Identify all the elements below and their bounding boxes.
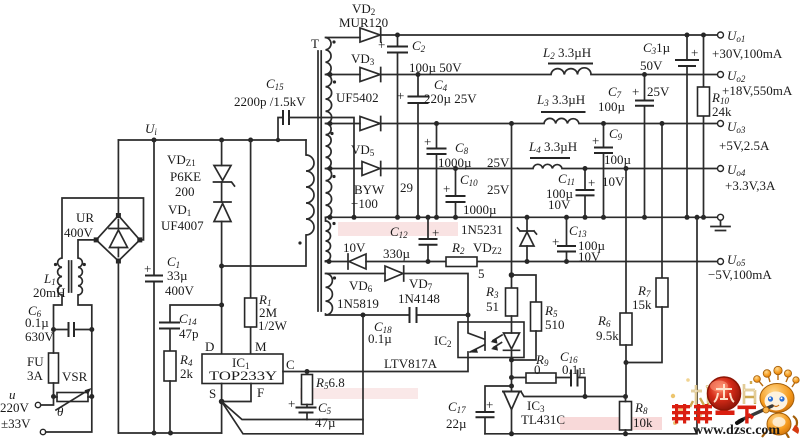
resistor R4 2k <box>164 351 176 381</box>
svg-text:100µ: 100µ <box>598 99 626 114</box>
red glossy circle logo <box>708 377 741 410</box>
fuse FU 3A <box>49 353 59 383</box>
capacitor C17 22u <box>485 386 512 434</box>
bias winding top wire <box>326 273 386 275</box>
svg-text:1N5231: 1N5231 <box>461 222 503 237</box>
resistor R7 15k <box>661 124 663 279</box>
svg-text:UF5402: UF5402 <box>336 90 379 105</box>
svg-text:10V: 10V <box>602 174 625 189</box>
diode VD5 BYW-100 <box>362 162 380 176</box>
svg-text:+: + <box>552 234 559 249</box>
L1 right coil <box>78 258 82 295</box>
svg-text:C31µ: C31µ <box>643 40 671 56</box>
svg-text:25V: 25V <box>647 84 670 99</box>
svg-text:BYW: BYW <box>354 182 385 197</box>
svg-text:VD5: VD5 <box>351 142 375 158</box>
svg-text:IC2: IC2 <box>434 333 452 349</box>
svg-text:10V: 10V <box>548 197 571 212</box>
svg-text:C15: C15 <box>266 76 284 92</box>
red brand blocks (weikuyixia) <box>672 404 756 424</box>
svg-text:VD7: VD7 <box>409 276 433 292</box>
bias winding w6 <box>326 274 333 315</box>
TVS VDZ1 P6KE200 <box>221 140 223 166</box>
node S <box>219 399 225 405</box>
primary polarity dot <box>298 241 301 244</box>
capacitor C6 0.1u 630V <box>69 323 75 336</box>
svg-text:C14: C14 <box>179 311 197 327</box>
+3.3V rail left part <box>381 168 533 170</box>
S fan wire to C5 rail <box>222 402 363 420</box>
input terminal 2 (neutral) <box>40 429 45 434</box>
svg-text:24k: 24k <box>712 104 732 119</box>
opto phototransistor <box>468 322 485 358</box>
svg-text:TL431C: TL431C <box>521 412 565 427</box>
sparkles <box>671 394 675 398</box>
wire bridge bottom to primary ground bus <box>117 261 119 433</box>
capacitor C8 1000u 25V <box>436 124 438 218</box>
svg-text:R3: R3 <box>485 284 499 300</box>
svg-text:θ: θ <box>57 404 64 419</box>
resistor R1 2M 1/2W <box>250 140 252 354</box>
svg-text:+: + <box>632 84 639 99</box>
watermark pink band 1 <box>338 222 458 236</box>
transformer primary winding <box>305 140 307 155</box>
svg-text:M: M <box>255 339 267 354</box>
svg-text:+: + <box>397 88 404 103</box>
svg-text:C2: C2 <box>412 38 426 54</box>
optocoupler IC2 LTV817A box <box>458 322 524 358</box>
common-mode choke L1 20mH : left coil <box>58 258 62 295</box>
svg-text:C10: C10 <box>460 172 478 188</box>
capacitor C10 1000u 25V <box>455 169 457 218</box>
F pin wire <box>222 384 251 402</box>
svg-text:1000µ: 1000µ <box>463 202 497 217</box>
svg-text:www.dzsc.com: www.dzsc.com <box>693 423 780 438</box>
svg-text:VD3: VD3 <box>351 51 375 67</box>
svg-text:+: + <box>432 225 439 240</box>
svg-text:L2 3.3µH: L2 3.3µH <box>542 45 591 61</box>
winding polarity dots <box>332 40 335 43</box>
LED cathode node <box>511 358 513 392</box>
zener VDZ2 1N5231 <box>526 217 528 231</box>
svg-text:Uo2: Uo2 <box>727 68 746 84</box>
wire bridge top to Ui rail <box>117 140 119 216</box>
svg-text:VD1: VD1 <box>168 202 191 218</box>
svg-text:630V: 630V <box>25 329 55 344</box>
snubber wire to C14 <box>170 305 222 323</box>
wire L1 right coil top to bridge left vertex <box>78 240 96 258</box>
resistor R10 24k <box>703 35 705 217</box>
svg-text:VDZ2: VDZ2 <box>473 240 502 256</box>
svg-text:R8: R8 <box>634 400 648 416</box>
shunt reg IC3 TL431C <box>503 391 521 393</box>
svg-text:P6KE: P6KE <box>170 169 201 184</box>
diode VD6 1N5819 <box>347 254 349 269</box>
svg-text:R2: R2 <box>451 240 465 256</box>
svg-text:47µ: 47µ <box>315 415 336 430</box>
-5V rail wire <box>326 261 718 263</box>
mascot robot <box>737 366 799 438</box>
svg-text:2k: 2k <box>180 366 194 381</box>
svg-text:0.1µ: 0.1µ <box>368 331 392 346</box>
capacitor C15 2200p/1.5kV <box>278 118 283 141</box>
svg-text:0.1µ: 0.1µ <box>562 362 586 377</box>
svg-text:UF4007: UF4007 <box>161 218 204 233</box>
svg-text:VSR: VSR <box>62 369 88 384</box>
svg-text:9.5k: 9.5k <box>596 328 619 343</box>
opto LED <box>511 322 513 333</box>
feedback sense riser from +5V <box>511 124 513 289</box>
svg-text:C: C <box>286 357 295 372</box>
C pin wire to optocoupler emitter <box>283 358 468 372</box>
opto light arrows <box>493 335 502 348</box>
svg-text:220µ 25V: 220µ 25V <box>424 91 477 106</box>
svg-text:L3 3.3µH: L3 3.3µH <box>536 92 585 108</box>
svg-text:Uo1: Uo1 <box>727 28 745 44</box>
svg-text:+18V,550mA: +18V,550mA <box>722 83 793 98</box>
svg-text:25V: 25V <box>487 182 510 197</box>
svg-text:±33V: ±33V <box>1 416 31 431</box>
svg-text:UR: UR <box>76 210 94 225</box>
svg-text:33µ: 33µ <box>167 268 188 283</box>
svg-text:VD6: VD6 <box>349 278 373 294</box>
inductor L4 3.3uH <box>533 164 562 168</box>
secondary winding w4 <box>326 169 332 218</box>
svg-text:10V: 10V <box>343 240 366 255</box>
diode VD1 UF4007 <box>214 201 231 203</box>
bias winding bottom wire with C18 <box>326 314 469 315</box>
node Ui rail <box>118 139 306 141</box>
svg-text:1/2W: 1/2W <box>258 318 288 333</box>
svg-text:47p: 47p <box>179 326 199 341</box>
resistor R5 6.8 <box>302 375 313 405</box>
svg-text:Uo5: Uo5 <box>727 252 746 268</box>
capacitor C2 100u 50V <box>397 35 399 217</box>
svg-text:400V: 400V <box>64 225 94 240</box>
inductor L3 3.3uH <box>544 118 579 123</box>
L1 polarity dots <box>54 263 57 266</box>
bridge rectifier UR 400V <box>96 216 140 262</box>
terminal Uo3 <box>718 121 724 127</box>
L1 core bars <box>69 261 72 292</box>
svg-text:25V: 25V <box>487 155 510 170</box>
svg-text:+: + <box>691 45 698 60</box>
svg-text:510: 510 <box>545 317 565 332</box>
svg-text:0.1µ: 0.1µ <box>25 315 49 330</box>
svg-text:330µ: 330µ <box>383 246 411 261</box>
svg-text:200: 200 <box>175 184 195 199</box>
svg-text:C9: C9 <box>609 126 623 142</box>
row1 tap wire <box>326 37 361 39</box>
gold character block zhao <box>690 385 712 407</box>
capacitor C13 100u 10V <box>566 217 568 261</box>
primary ground bus <box>118 432 221 434</box>
svg-text:C11: C11 <box>558 171 575 187</box>
svg-text:15k: 15k <box>632 297 652 312</box>
resistor R8 10k <box>620 402 632 431</box>
svg-text:220V: 220V <box>0 400 30 415</box>
svg-text:+3.3V,3A: +3.3V,3A <box>725 178 776 193</box>
+30V rail <box>381 34 718 36</box>
diode VD2 MUR120 <box>360 28 380 42</box>
capacitor C16 0.1u <box>571 371 578 386</box>
varistor arrow <box>56 390 89 410</box>
svg-text:400V: 400V <box>165 283 195 298</box>
terminal Uo2 <box>718 72 724 78</box>
svg-text:50V: 50V <box>640 58 663 73</box>
row3 tap wire <box>326 123 361 125</box>
svg-text:20mH: 20mH <box>33 285 66 300</box>
diode VD3 <box>360 68 380 82</box>
S pin wire <box>221 384 223 434</box>
svg-text:51: 51 <box>486 299 499 314</box>
capacitor C18 0.1u <box>410 308 417 322</box>
svg-text:+5V,2.5A: +5V,2.5A <box>719 138 770 153</box>
L1 bottom leads <box>54 295 92 330</box>
op IC1 TOP233Y box <box>202 354 283 384</box>
resistor R2 <box>446 257 477 267</box>
svg-text:−5V,100mA: −5V,100mA <box>708 267 772 282</box>
capacitor C12 330u 10V <box>427 217 429 261</box>
capacitor C11 100u 10V <box>584 169 586 218</box>
capacitor C7 100u 25V <box>644 75 646 218</box>
svg-text:+: + <box>288 396 295 411</box>
svg-text:100µ: 100µ <box>604 152 632 167</box>
bridge inner diode <box>109 220 128 257</box>
terminal ground <box>718 214 724 220</box>
svg-text:+: + <box>424 134 431 149</box>
svg-text:VDZ1: VDZ1 <box>167 152 196 168</box>
svg-text:FU: FU <box>27 354 44 369</box>
svg-text:D: D <box>205 339 214 354</box>
svg-text:+: + <box>443 181 450 196</box>
row4 tap wire <box>326 168 363 170</box>
secondary winding w3 <box>326 124 332 169</box>
svg-text:C8: C8 <box>455 140 469 156</box>
secondary ground bottom rail <box>485 217 697 433</box>
svg-text:C7: C7 <box>608 84 622 100</box>
capacitor C1 33u 400V <box>153 140 155 433</box>
svg-text:LTV817A: LTV817A <box>384 356 438 371</box>
wire from terminal 1 to fuse bottom node <box>41 397 54 406</box>
diode VD4 UF5402 <box>360 117 380 131</box>
svg-text:5: 5 <box>478 266 485 281</box>
varistor VSR <box>57 393 88 402</box>
svg-text:+: + <box>144 261 151 276</box>
capacitor C9 100u 10V <box>603 124 605 218</box>
svg-text:Uo4: Uo4 <box>727 162 746 178</box>
inductor L2 3.3uH <box>551 68 591 75</box>
svg-text:T: T <box>311 36 319 51</box>
svg-text:22µ: 22µ <box>446 416 467 431</box>
svg-text:10k: 10k <box>633 415 653 430</box>
capacitor C14 47p <box>160 323 179 329</box>
branch to R5 510 <box>512 275 537 302</box>
svg-text:MUR120: MUR120 <box>339 15 388 30</box>
svg-text:+: + <box>486 397 493 412</box>
input terminal 1 (live) <box>35 402 40 407</box>
resistor R5 510 <box>531 302 542 331</box>
svg-text:−100: −100 <box>351 196 378 211</box>
svg-text:C17: C17 <box>448 399 466 415</box>
capacitor C4 220u 25V <box>417 75 419 218</box>
svg-text:L4 3.3µH: L4 3.3µH <box>528 139 577 155</box>
resistor R9 0 <box>512 377 527 379</box>
row2 tap wire <box>326 74 361 76</box>
wire neutral to right riser <box>46 330 92 433</box>
resistor R3 51 <box>506 288 518 316</box>
svg-text:2200p /1.5kV: 2200p /1.5kV <box>234 94 306 109</box>
secondary ground bus <box>326 216 719 218</box>
svg-text:+: + <box>592 133 599 148</box>
terminal Uo4 <box>718 166 724 172</box>
gold character block pian <box>744 381 755 404</box>
svg-text:Ui: Ui <box>145 121 157 137</box>
capacitor C3 1u 50V <box>686 35 688 217</box>
+5V rail left part <box>381 123 544 125</box>
bias return riser <box>362 315 364 434</box>
svg-text:+: + <box>378 37 385 52</box>
svg-text:+: + <box>588 175 595 190</box>
watermark pink band 2 <box>300 388 418 399</box>
capacitor C5 47u <box>306 405 308 408</box>
secondary winding w1 <box>326 38 332 75</box>
svg-text:R56.8: R56.8 <box>315 375 345 391</box>
svg-text:Uo3: Uo3 <box>727 119 746 135</box>
svg-text:0: 0 <box>534 362 541 377</box>
bias winding w5 <box>326 221 331 261</box>
svg-text:TOP233Y: TOP233Y <box>209 368 278 383</box>
svg-text:+30V,100mA: +30V,100mA <box>712 46 783 61</box>
resistor R6 9.5k <box>625 169 627 314</box>
svg-text:F: F <box>257 385 264 400</box>
pen in hand <box>739 406 772 421</box>
transformer core <box>318 51 321 311</box>
svg-text:C5: C5 <box>318 400 332 416</box>
terminal Uo1 <box>718 32 724 38</box>
wire L1 left coil top over bridge to right vertex <box>62 198 144 258</box>
+18V rail left part <box>381 74 551 76</box>
svg-text:S: S <box>209 386 216 401</box>
S fan wire to lower rail <box>222 402 363 434</box>
secondary winding w2 <box>326 75 332 124</box>
svg-text:3A: 3A <box>27 368 44 383</box>
svg-text:1N5819: 1N5819 <box>337 296 379 311</box>
watermark pink band 3 <box>560 417 662 430</box>
svg-text:R6: R6 <box>597 313 611 329</box>
svg-text:29: 29 <box>400 180 413 195</box>
terminal Uo5 <box>718 259 724 265</box>
svg-text:10V: 10V <box>578 249 601 264</box>
diode VD7 1N4148 <box>385 266 403 281</box>
svg-text:1N4148: 1N4148 <box>398 291 440 306</box>
svg-text:C13: C13 <box>569 223 587 239</box>
